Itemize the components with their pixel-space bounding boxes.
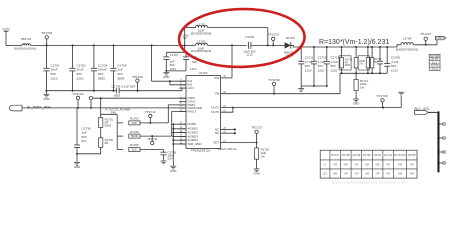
svg-text:TPS61193-Q1: TPS61193-Q1 (191, 148, 211, 152)
svg-text:1210: 1210 (330, 69, 337, 73)
svg-text:FB1701: FB1701 (21, 37, 32, 41)
svg-text:0R: 0R (105, 141, 109, 145)
svg-text:LDO: LDO (188, 86, 195, 90)
svg-text:R1745: R1745 (408, 153, 416, 157)
svg-text:D1703: D1703 (286, 36, 295, 40)
svg-text:GND: GND (170, 169, 176, 173)
svg-text:P_VCCG_PLANE: P_VCCG_PLANE (106, 108, 131, 112)
svg-text:OR: OR (354, 163, 358, 167)
svg-text:0805: 0805 (98, 77, 105, 81)
svg-text:OR: OR (376, 172, 380, 176)
svg-text:1%: 1% (360, 85, 365, 89)
svg-text:10K: 10K (132, 121, 137, 125)
svg-text:50V: 50V (77, 72, 83, 76)
svg-text:0805: 0805 (117, 77, 124, 81)
svg-text:10uF: 10uF (77, 68, 84, 72)
svg-text:10K: 10K (132, 148, 137, 152)
svg-text:560R: 560R (131, 134, 138, 138)
svg-text:L1702: L1702 (197, 40, 206, 44)
svg-text:1210: 1210 (51, 77, 58, 81)
svg-text:7R 4x: 7R 4x (431, 68, 438, 71)
svg-text:R1708: R1708 (130, 130, 139, 134)
svg-text:U1701: U1701 (199, 71, 208, 75)
svg-text:OR: OR (354, 172, 358, 176)
svg-text:0.1uF 50V: 0.1uF 50V (122, 85, 136, 89)
svg-text:C1709: C1709 (245, 35, 254, 39)
svg-text:TP1708: TP1708 (269, 78, 280, 82)
svg-text:FB: FB (215, 92, 219, 96)
svg-text:MLF2520T2R2M: MLF2520T2R2M (191, 31, 212, 35)
svg-text:GND: GND (163, 75, 169, 79)
svg-text:R1740: R1740 (363, 153, 371, 157)
svg-text:R1737: R1737 (331, 153, 339, 157)
svg-text:0603: 0603 (105, 123, 112, 127)
svg-text:1uF: 1uF (117, 68, 122, 72)
svg-text:5%: 5% (82, 139, 87, 143)
svg-text:50V: 50V (51, 72, 57, 76)
svg-text:BL_PWDL_PDN: BL_PWDL_PDN (27, 105, 51, 109)
svg-text:TP1707: TP1707 (420, 32, 431, 36)
svg-text:50V: 50V (192, 60, 197, 64)
svg-text:R1709: R1709 (130, 143, 139, 147)
svg-text:NM: NM (344, 163, 348, 167)
svg-text:OR: OR (410, 163, 414, 167)
svg-text:TP1704: TP1704 (73, 92, 84, 96)
svg-text:C1735: C1735 (112, 85, 121, 89)
svg-text:OUT2: OUT2 (211, 110, 219, 114)
svg-text:50V: 50V (98, 72, 104, 76)
svg-text:L1704: L1704 (403, 36, 412, 40)
svg-text:L1701: L1701 (197, 22, 206, 26)
svg-text:NM: NM (410, 172, 414, 176)
svg-text:R1743 R4: R1743 R4 (394, 153, 406, 157)
svg-text:BLM31PG500SN1L: BLM31PG500SN1L (396, 47, 419, 51)
svg-text:C1701: C1701 (51, 63, 60, 67)
svg-text:SW: SW (214, 76, 219, 80)
svg-text:NM: NM (376, 163, 380, 167)
svg-text:R1739: R1739 (353, 153, 361, 157)
svg-text:OR: OR (344, 172, 348, 176)
svg-text:1%: 1% (261, 155, 266, 159)
svg-text:R1738: R1738 (342, 153, 350, 157)
svg-text:NM: NM (398, 163, 402, 167)
svg-text:TP1712: TP1712 (145, 110, 156, 114)
svg-text:GND: GND (253, 172, 259, 176)
svg-text:TP1709: TP1709 (377, 94, 388, 98)
svg-text:1210: 1210 (391, 68, 398, 72)
svg-text:1210: 1210 (246, 52, 253, 56)
svg-text:OUT1: OUT1 (211, 106, 219, 110)
svg-text:0R: 0R (374, 61, 377, 64)
svg-text:TP1710: TP1710 (268, 33, 279, 37)
svg-text:LED+: LED+ (436, 36, 444, 40)
svg-text:1210: 1210 (77, 77, 84, 81)
svg-text:Switch 630mA: Switch 630mA (218, 147, 237, 151)
svg-text:C1704: C1704 (98, 63, 107, 67)
svg-text:R1737 R1738 R1739 R1740 R1: R1737 R1738 R1739 R1740 R1741 R1742 R174… (332, 180, 405, 184)
svg-text:12.1: 12.1 (323, 172, 329, 176)
svg-text:MLF2520T2R2M: MLF2520T2R2M (191, 49, 212, 53)
svg-text:10uF: 10uF (51, 68, 58, 72)
svg-text:C1702: C1702 (77, 63, 86, 67)
svg-text:NM: NM (398, 172, 402, 176)
svg-text:OR: OR (386, 172, 390, 176)
svg-text:50V: 50V (117, 72, 123, 76)
svg-text:1210: 1210 (190, 67, 197, 71)
svg-text:R1742: R1742 (384, 153, 392, 157)
svg-text:OR: OR (333, 163, 337, 167)
svg-text:GND: GND (43, 97, 49, 101)
svg-text:+12V: +12V (2, 27, 11, 31)
svg-text:1210: 1210 (170, 67, 177, 71)
svg-text:TP1713: TP1713 (251, 126, 262, 130)
svg-text:1210: 1210 (318, 69, 325, 73)
svg-text:NM: NM (365, 163, 369, 167)
svg-text:R1741: R1741 (374, 153, 382, 157)
svg-text:TP1706: TP1706 (132, 75, 143, 79)
svg-text:0603: 0603 (345, 64, 351, 67)
svg-text:TP1703: TP1703 (41, 31, 52, 35)
svg-text:PGND: PGND (188, 122, 197, 126)
svg-text:0603: 0603 (114, 93, 121, 97)
svg-text:NM: NM (333, 172, 337, 176)
svg-text:C1707: C1707 (170, 53, 179, 57)
svg-text:GND: GND (353, 102, 359, 106)
svg-text:50V: 50V (168, 156, 173, 160)
svg-text:C1705: C1705 (117, 63, 126, 67)
svg-text:SET: SET (213, 140, 219, 144)
svg-text:1210: 1210 (305, 69, 312, 73)
svg-text:NM: NM (365, 172, 369, 176)
svg-text:NM: NM (183, 37, 187, 40)
svg-text:TAB_GND: TAB_GND (188, 142, 203, 146)
svg-text:100nF: 100nF (98, 68, 107, 72)
svg-text:R=130*(Vm-1.2)/6.231: R=130*(Vm-1.2)/6.231 (319, 39, 389, 46)
svg-text:GND: GND (74, 165, 80, 169)
svg-text:OR: OR (386, 163, 390, 167)
svg-text:R1703: R1703 (130, 117, 139, 121)
svg-text:FAULT: FAULT (188, 110, 197, 114)
svg-text:BLM31KN102SH1L: BLM31KN102SH1L (14, 46, 37, 50)
